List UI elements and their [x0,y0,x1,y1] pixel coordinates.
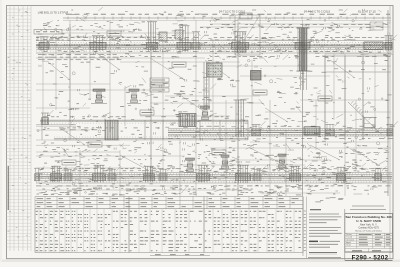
svg-text:LINE B EL 31 TO 1 ST FLR: LINE B EL 31 TO 1 ST FLR [38,11,69,14]
svg-text:EL 31 AT 27 1/2: EL 31 AT 27 1/2 [358,11,376,14]
svg-text:Traced: Traced [346,236,352,239]
svg-text:Contract NOy 4175: Contract NOy 4175 [358,226,379,229]
svg-text:24'-7 1/2 C TO C COLS: 24'-7 1/2 C TO C COLS [304,11,331,14]
svg-text:Drawn: Drawn [346,233,351,236]
svg-text:Scale: Scale [346,245,351,247]
svg-text:Appd: Appd [346,241,350,244]
svg-text:Bureau of Yards and Docks: Bureau of Yards and Docks [355,229,382,232]
